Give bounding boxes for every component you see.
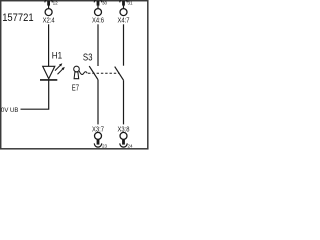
svg-text:157721: 157721 — [2, 12, 34, 24]
wire X4:7 to S3 right contact — [123, 24, 125, 65]
svg-text:24: 24 — [128, 144, 134, 149]
actuator E7 — [72, 66, 88, 92]
LED H1 — [40, 49, 65, 80]
wire S3 left contact to X3:7 — [97, 80, 99, 125]
wire X4:6 to S3 left contact — [97, 24, 99, 66]
terminal X4:6 — [92, 0, 108, 24]
svg-text:X4:6: X4:6 — [92, 15, 104, 24]
svg-text:23: 23 — [102, 144, 108, 149]
terminal X3:7 — [92, 124, 108, 148]
wire S3 right contact to X3:8 — [123, 80, 125, 124]
wire H1 to 0V — [21, 80, 49, 109]
svg-text:S3: S3 — [83, 52, 93, 63]
switch S3 right NO contact — [115, 67, 124, 81]
svg-text:E7: E7 — [72, 82, 79, 92]
label 157721 — [2, 12, 34, 24]
terminal X4:7 — [118, 0, 134, 24]
svg-text:X4:7: X4:7 — [118, 15, 130, 24]
wire X2:4 to H1 — [48, 24, 50, 66]
svg-text:H1: H1 — [52, 49, 62, 60]
terminal X2:4 — [43, 0, 59, 24]
svg-text:31: 31 — [128, 0, 134, 5]
svg-text:X2:4: X2:4 — [43, 15, 55, 24]
svg-text:12: 12 — [53, 0, 59, 5]
mechanical linkage (dashed) — [88, 72, 120, 74]
terminal X3:8 — [118, 124, 134, 148]
switch S3 left NO contact — [83, 52, 98, 79]
svg-text:30: 30 — [102, 0, 108, 5]
svg-text:0V UB: 0V UB — [1, 108, 18, 114]
